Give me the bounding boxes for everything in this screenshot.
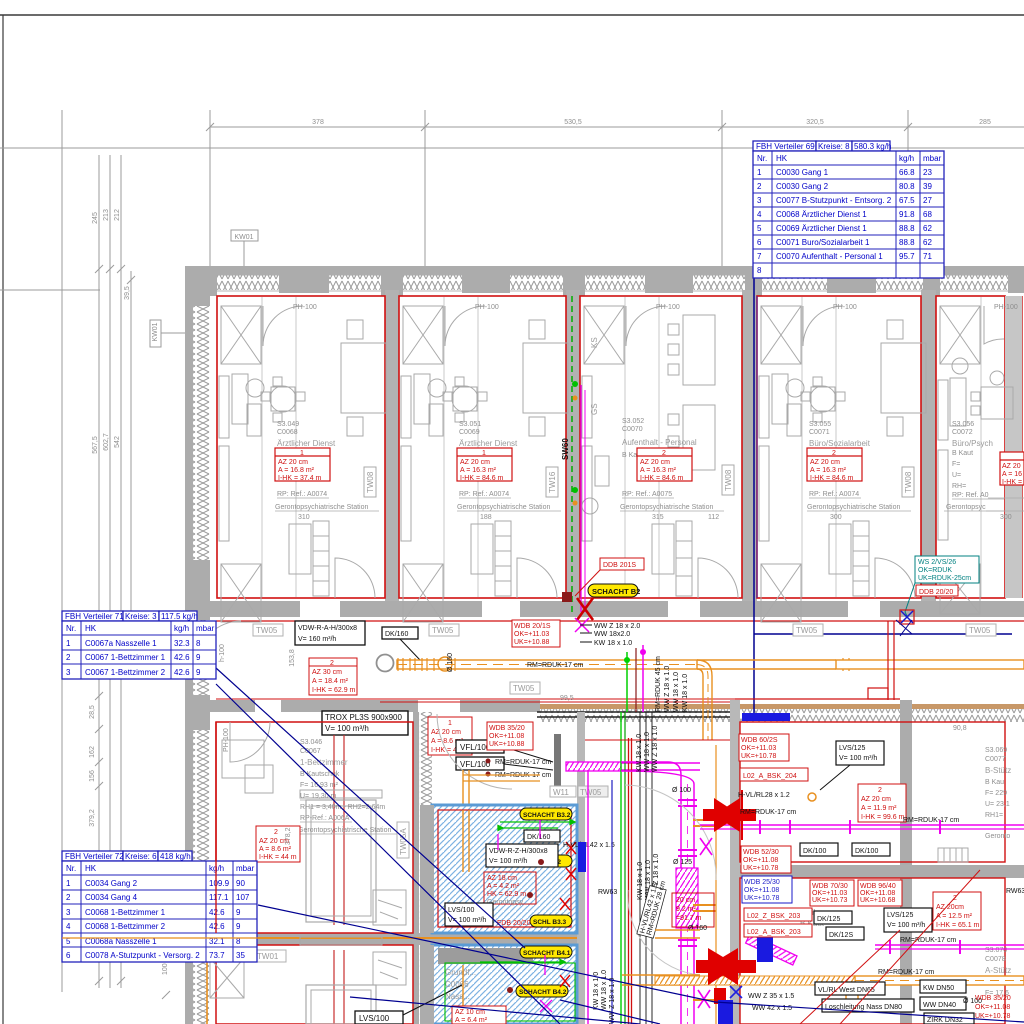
svg-text:RP: Ref.: A0074: RP: Ref.: A0074 xyxy=(809,491,859,498)
svg-text:285: 285 xyxy=(979,119,991,126)
SCHACHT B2 yellow oval xyxy=(588,584,640,597)
svg-text:A = 12.5 m²: A = 12.5 m² xyxy=(936,913,973,920)
svg-text:Büro/Psych: Büro/Psych xyxy=(952,439,993,448)
svg-text:C0034 Gang 4: C0034 Gang 4 xyxy=(85,893,138,902)
svg-text:L02_A_BSK_204: L02_A_BSK_204 xyxy=(743,773,797,780)
svg-text:DK/160: DK/160 xyxy=(527,834,550,841)
svg-text:C0067 1-Bettzimmer 2: C0067 1-Bettzimmer 2 xyxy=(85,668,166,677)
red corridor circuit lines xyxy=(735,621,900,700)
svg-text:153,8: 153,8 xyxy=(289,649,296,667)
svg-text:C0068 1-Bettzimmer 2: C0068 1-Bettzimmer 2 xyxy=(85,922,166,931)
bottom-left extras xyxy=(89,649,296,827)
svg-text:FDB 20/20: FDB 20/20 xyxy=(497,920,531,927)
svg-text:F=: F= xyxy=(952,461,960,468)
svg-text:Kreise: 3: Kreise: 3 xyxy=(125,612,157,621)
svg-text:FBH Verteiler 71: FBH Verteiler 71 xyxy=(65,612,124,621)
svg-text:567,5: 567,5 xyxy=(92,436,99,454)
svg-text:VL/RL West DN65: VL/RL West DN65 xyxy=(818,987,875,994)
svg-text:HK: HK xyxy=(776,154,788,163)
svg-text:99,5: 99,5 xyxy=(560,695,574,702)
svg-text:A = 16.3 m²: A = 16.3 m² xyxy=(460,467,497,474)
svg-text:WW DN40: WW DN40 xyxy=(923,1002,956,1009)
svg-text:Ø 160: Ø 160 xyxy=(447,653,454,672)
red circuit line xyxy=(585,739,730,741)
magenta joints on runs xyxy=(760,820,960,954)
svg-text:100: 100 xyxy=(162,963,169,975)
LVS label bottom xyxy=(355,1011,403,1024)
red box right room2 xyxy=(933,892,981,930)
svg-text:V= 100 m³/h: V= 100 m³/h xyxy=(839,755,877,762)
svg-text:I-HK = 84.6 m: I-HK = 84.6 m xyxy=(810,475,854,482)
svg-text:TW08: TW08 xyxy=(366,471,375,493)
svg-text:KW 18 x 1.0: KW 18 x 1.0 xyxy=(594,640,632,647)
red box 2 xyxy=(256,826,300,862)
orange duct elbow down xyxy=(697,660,712,740)
svg-text:379,2: 379,2 xyxy=(89,809,96,827)
svg-text:Büro/Sozialarbeit: Büro/Sozialarbeit xyxy=(809,439,871,448)
red damper cluster 1 xyxy=(703,798,756,832)
right rooms red borders xyxy=(740,722,1005,862)
svg-text:95.7: 95.7 xyxy=(899,252,915,261)
table FBH Verteiler 72 xyxy=(62,851,257,962)
WDB 35/20 red xyxy=(487,722,533,750)
right room1 texts xyxy=(985,747,1011,840)
rotated duct label box xyxy=(637,878,668,938)
window sill line xyxy=(185,290,1024,292)
svg-text:AZ 20: AZ 20 xyxy=(1002,463,1021,470)
label boxes right xyxy=(800,741,932,940)
svg-text:DK/100: DK/100 xyxy=(855,848,878,855)
heating loop red lines xyxy=(333,735,335,925)
svg-text:C0068 1-Bettzimmer 1: C0068 1-Bettzimmer 1 xyxy=(85,908,166,917)
orange down pipes to bath xyxy=(462,770,464,930)
svg-text:2: 2 xyxy=(662,450,666,457)
svg-text:542: 542 xyxy=(114,436,121,448)
VDW label xyxy=(486,844,558,867)
svg-text:C0077: C0077 xyxy=(985,756,1006,763)
svg-text:WW 18 x 1.0: WW 18 x 1.0 xyxy=(673,672,680,712)
svg-text:315: 315 xyxy=(652,514,664,521)
svg-text:Grundf...: Grundf... xyxy=(445,968,476,977)
red label boxes xyxy=(739,734,812,937)
magenta duct run xyxy=(566,762,621,771)
svg-text:mbar: mbar xyxy=(923,154,942,163)
svg-text:23: 23 xyxy=(923,168,932,177)
svg-text:WDB 70/30: WDB 70/30 xyxy=(812,883,848,890)
room 1 Aerztlicher Dienst xyxy=(217,296,386,622)
green dashed riser SW60 xyxy=(571,296,573,612)
svg-text:Gerontopsychiatrische Station: Gerontopsychiatrische Station xyxy=(457,504,550,511)
DDB 20/20 red label right xyxy=(916,585,958,596)
svg-text:LVS/125: LVS/125 xyxy=(839,745,865,752)
svg-text:UK=RDUK-25cm: UK=RDUK-25cm xyxy=(918,575,971,582)
svg-text:S3.052: S3.052 xyxy=(622,418,644,425)
svg-text:B-Stütz: B-Stütz xyxy=(985,766,1011,775)
svg-text:=91.7 m: =91.7 m xyxy=(676,915,702,922)
magenta vertical duct xyxy=(621,762,698,1024)
svg-text:TW08: TW08 xyxy=(724,469,733,491)
svg-text:2: 2 xyxy=(832,450,836,457)
svg-text:9: 9 xyxy=(236,908,241,917)
orange run bottom right xyxy=(855,976,1024,985)
svg-text:DK/160: DK/160 xyxy=(385,631,408,638)
svg-text:PH-100: PH-100 xyxy=(223,728,230,752)
svg-text:A = 18.4 m²: A = 18.4 m² xyxy=(312,678,349,685)
svg-text:OK=+11.08: OK=+11.08 xyxy=(975,1004,1010,1011)
orange duct continues right of elbow xyxy=(836,660,1024,669)
svg-text:A = 11.9 m²: A = 11.9 m² xyxy=(861,805,897,812)
air outlet circle xyxy=(377,655,394,672)
svg-text:C0030 Gang 1: C0030 Gang 1 xyxy=(776,168,829,177)
svg-text:C0072: C0072 xyxy=(952,429,973,436)
inter-room walls upper row xyxy=(385,290,936,602)
svg-text:42.6: 42.6 xyxy=(209,922,225,931)
svg-text:Ärztlicher Dienst: Ärztlicher Dienst xyxy=(459,439,518,448)
svg-text:Ø 125: Ø 125 xyxy=(673,859,692,866)
svg-text:1: 1 xyxy=(300,450,304,457)
svg-text:117.5 kg/h: 117.5 kg/h xyxy=(161,612,198,621)
W11 labels xyxy=(550,786,576,797)
svg-text:A = 16.3 m²: A = 16.3 m² xyxy=(640,467,677,474)
svg-text:TW08: TW08 xyxy=(904,471,913,493)
svg-text:UK=+10.78: UK=+10.78 xyxy=(743,865,779,872)
orange line through xyxy=(216,937,580,939)
svg-text:68: 68 xyxy=(923,210,932,219)
svg-text:B Kau: B Kau xyxy=(985,779,1004,786)
svg-text:62: 62 xyxy=(923,224,932,233)
KW01 label box xyxy=(231,230,258,266)
svg-text:C0069: C0069 xyxy=(459,429,480,436)
rotated labels in shaft xyxy=(593,726,660,1024)
red corridor line xyxy=(216,620,1024,622)
svg-text:39: 39 xyxy=(923,182,932,191)
svg-text:Nass...: Nass... xyxy=(445,992,470,1001)
svg-text:RM=RDUK-17 cm: RM=RDUK-17 cm xyxy=(900,937,956,944)
DK/160 label xyxy=(382,627,420,660)
red diagonal leaders bottom right xyxy=(840,870,980,1024)
short horizontal line left xyxy=(0,289,100,291)
bottom-right black labels xyxy=(815,980,974,1024)
door arc top-left xyxy=(230,722,270,762)
svg-text:I-HK = 65.1 m: I-HK = 65.1 m xyxy=(936,922,980,929)
svg-text:U= 23,1: U= 23,1 xyxy=(985,801,1010,808)
KW01 rotated label xyxy=(150,320,193,347)
svg-text:L02_Z_BSK_203: L02_Z_BSK_203 xyxy=(747,913,800,920)
svg-text:h-100: h-100 xyxy=(219,644,226,662)
svg-text:OK=+11.08: OK=+11.08 xyxy=(860,890,895,897)
svg-text:WW 18 x 1.0: WW 18 x 1.0 xyxy=(601,970,608,1010)
svg-text:I-HK = 84.6 m: I-HK = 84.6 m xyxy=(460,475,504,482)
svg-text:418 kg/h: 418 kg/h xyxy=(160,852,191,861)
svg-text:SCHACHT B3.2: SCHACHT B3.2 xyxy=(523,812,571,819)
svg-text:C0078: C0078 xyxy=(985,956,1006,963)
svg-text:U=: U= xyxy=(952,472,961,479)
svg-text:Gerontopsychiatrische Station: Gerontopsychiatrische Station xyxy=(620,504,713,511)
teal WS box xyxy=(905,556,979,618)
red double line lower corridor xyxy=(380,701,735,703)
right room2 texts xyxy=(985,947,1011,997)
svg-text:HK: HK xyxy=(85,624,97,633)
svg-text:S3.049: S3.049 xyxy=(277,421,299,428)
wall band between bathrooms xyxy=(255,933,580,945)
svg-text:3: 3 xyxy=(66,908,71,917)
door arc above bath1 xyxy=(437,714,512,789)
top dimension chain xyxy=(206,123,1024,131)
svg-text:Nr.: Nr. xyxy=(757,154,767,163)
distributor marker right xyxy=(900,610,914,624)
svg-text:66.8: 66.8 xyxy=(899,168,915,177)
svg-text:RM=RDUK-17 cm: RM=RDUK-17 cm xyxy=(740,809,796,816)
svg-text:5: 5 xyxy=(757,224,762,233)
svg-text:Ärztlicher Dienst: Ärztlicher Dienst xyxy=(277,439,336,448)
svg-text:KW 18 x 1.0: KW 18 x 1.0 xyxy=(636,734,643,772)
svg-text:7: 7 xyxy=(757,252,762,261)
svg-text:1: 1 xyxy=(66,879,71,888)
svg-text:91.8: 91.8 xyxy=(899,210,915,219)
red inner box xyxy=(484,872,536,904)
orange riser joints xyxy=(693,820,716,1000)
svg-text:Kreise: 8: Kreise: 8 xyxy=(818,142,850,151)
svg-text:mbar: mbar xyxy=(196,624,215,633)
left exterior wall xyxy=(185,266,193,1024)
svg-text:UK=+10.78: UK=+10.78 xyxy=(744,895,780,902)
svg-text:KW DN50: KW DN50 xyxy=(923,985,954,992)
svg-text:188: 188 xyxy=(480,514,492,521)
svg-text:VFL/100: VFL/100 xyxy=(460,743,491,752)
svg-text:L02_A_BSK_203: L02_A_BSK_203 xyxy=(747,929,801,936)
horizontal grid line under title xyxy=(0,147,1024,149)
top wall piers solid xyxy=(185,266,1024,296)
svg-text:107: 107 xyxy=(236,893,250,902)
svg-text:TW05: TW05 xyxy=(580,788,602,797)
svg-text:35: 35 xyxy=(236,951,245,960)
svg-text:RW63: RW63 xyxy=(1006,888,1024,895)
DK/160 xyxy=(524,830,560,842)
svg-text:WDB 25/30: WDB 25/30 xyxy=(744,879,780,886)
svg-text:C0071 Buro/Sozialarbeit 1: C0071 Buro/Sozialarbeit 1 xyxy=(776,238,870,247)
svg-text:RW63: RW63 xyxy=(598,889,617,896)
svg-text:AZ 20 cm: AZ 20 cm xyxy=(810,459,840,466)
svg-text:TW05: TW05 xyxy=(513,684,535,693)
svg-text:AZ 20 cm: AZ 20 cm xyxy=(460,459,490,466)
svg-text:RP-Ref.: A006A: RP-Ref.: A006A xyxy=(300,815,350,822)
left wall solid piers xyxy=(185,266,210,955)
green riser in corridor xyxy=(626,652,628,712)
svg-text:Aufenthalt - Personal: Aufenthalt - Personal xyxy=(622,438,697,447)
big door arc in stuetzpunkt xyxy=(625,785,716,880)
table FBH Verteiler 71 xyxy=(62,611,216,679)
svg-text:156: 156 xyxy=(89,770,96,782)
svg-text:HK: HK xyxy=(85,864,97,873)
red bottom right texts xyxy=(975,995,1011,1020)
svg-text:RM=RDUK-17 cm: RM=RDUK-17 cm xyxy=(495,759,551,766)
svg-text:2: 2 xyxy=(878,787,882,794)
blue rects xyxy=(742,713,790,721)
svg-text:C0077 B-Stutzpunkt - Entsorg.: C0077 B-Stutzpunkt - Entsorg. 2 xyxy=(776,196,892,205)
magenta main run 2 xyxy=(875,944,1024,946)
svg-text:90: 90 xyxy=(236,879,245,888)
svg-text:RP: Ref.: A0074: RP: Ref.: A0074 xyxy=(277,491,327,498)
TW05A rotated xyxy=(397,822,409,858)
svg-text:WDB 20/1S: WDB 20/1S xyxy=(514,623,551,630)
svg-text:TW05: TW05 xyxy=(969,626,991,635)
svg-text:27: 27 xyxy=(923,196,932,205)
svg-text:C0030 Gang 2: C0030 Gang 2 xyxy=(776,182,829,191)
svg-text:I-HK = 99.6 m: I-HK = 99.6 m xyxy=(861,814,905,821)
svg-text:C0071: C0071 xyxy=(809,429,830,436)
svg-text:67.5: 67.5 xyxy=(899,196,915,205)
svg-text:UK=+10.78: UK=+10.78 xyxy=(741,753,777,760)
svg-text:C0068 Ärztlicher Dienst 1: C0068 Ärztlicher Dienst 1 xyxy=(776,210,867,219)
svg-text:378: 378 xyxy=(312,119,324,126)
magenta duct diagonal xyxy=(746,934,797,965)
svg-text:TW01: TW01 xyxy=(257,952,279,961)
svg-text:DK/125: DK/125 xyxy=(817,916,840,923)
svg-text:AZ 30 cm: AZ 30 cm xyxy=(312,669,342,676)
svg-text:PH-100: PH-100 xyxy=(293,304,317,311)
sheet border top line xyxy=(0,14,1024,16)
svg-text:OK=+11.08: OK=+11.08 xyxy=(489,733,524,740)
svg-text:A = 16: A = 16 xyxy=(1002,471,1022,478)
svg-text:378,2: 378,2 xyxy=(285,827,292,845)
LVS label xyxy=(445,903,493,926)
desk bottom right xyxy=(373,890,406,925)
VFL labels xyxy=(456,740,553,770)
svg-text:OK=+11.08: OK=+11.08 xyxy=(743,857,778,864)
svg-text:580.3 kg/h: 580.3 kg/h xyxy=(854,142,891,151)
svg-text:I-HK =: I-HK = xyxy=(1002,479,1022,486)
svg-text:3: 3 xyxy=(757,196,762,205)
red box right room1 xyxy=(858,784,906,822)
svg-text:AZ 20cm: AZ 20cm xyxy=(936,904,964,911)
svg-text:WDB 52/30: WDB 52/30 xyxy=(743,849,779,856)
svg-text:RH1=: RH1= xyxy=(985,812,1003,819)
svg-text:AZ 20 cm: AZ 20 cm xyxy=(431,729,461,736)
svg-text:213: 213 xyxy=(103,209,110,221)
svg-text:Nr.: Nr. xyxy=(66,624,76,633)
svg-text:245: 245 xyxy=(92,212,99,224)
left dim ticks xyxy=(95,265,135,985)
svg-text:TW16: TW16 xyxy=(548,471,557,493)
room 5 Buero/Psych (cut off) xyxy=(936,296,1024,614)
svg-text:212: 212 xyxy=(114,209,121,221)
svg-text:KS: KS xyxy=(590,337,599,348)
svg-text:9: 9 xyxy=(196,668,201,677)
svg-text:AZ 20 cm: AZ 20 cm xyxy=(640,459,670,466)
svg-text:8: 8 xyxy=(757,266,762,275)
svg-text:WW Z 18 x 1.0: WW Z 18 x 1.0 xyxy=(652,726,659,772)
svg-text:73.7: 73.7 xyxy=(209,951,225,960)
room 3 Aufenthalt-Personal xyxy=(580,296,742,598)
svg-text:9.2 m²: 9.2 m² xyxy=(676,906,697,913)
svg-text:S3.056: S3.056 xyxy=(952,421,974,428)
svg-text:OK=+11.03: OK=+11.03 xyxy=(812,890,847,897)
left dimension labels rotated xyxy=(92,209,131,454)
svg-text:42.6: 42.6 xyxy=(209,908,225,917)
svg-text:V= 100 m³/h: V= 100 m³/h xyxy=(489,858,527,865)
svg-text:WW Z 18 x 2.0: WW Z 18 x 2.0 xyxy=(594,623,640,630)
svg-text:C0067a Nasszelle 1: C0067a Nasszelle 1 xyxy=(85,639,157,648)
svg-text:A = 4.2 m²: A = 4.2 m² xyxy=(487,883,520,890)
corridor bottom wall left part xyxy=(185,700,540,712)
svg-text:S3.046: S3.046 xyxy=(300,739,322,746)
TROX label xyxy=(322,711,408,735)
svg-text:2: 2 xyxy=(274,829,278,836)
svg-text:WDB 96/40: WDB 96/40 xyxy=(860,883,896,890)
svg-text:90,8: 90,8 xyxy=(953,725,967,732)
svg-text:20 cm: 20 cm xyxy=(676,897,695,904)
svg-text:I-HK = 62.9 m: I-HK = 62.9 m xyxy=(312,687,356,694)
WDB 20/1S red box xyxy=(512,620,560,647)
red box 1 above bath xyxy=(428,717,472,755)
svg-text:TW05: TW05 xyxy=(256,626,278,635)
svg-text:WDB 35/20: WDB 35/20 xyxy=(489,725,525,732)
svg-text:1: 1 xyxy=(448,720,452,727)
svg-text:kg/h: kg/h xyxy=(899,154,914,163)
svg-text:300: 300 xyxy=(830,514,842,521)
schacht ovals xyxy=(520,808,572,820)
VDW air label xyxy=(295,621,365,645)
WW/KW pipe texts xyxy=(580,623,640,647)
svg-text:DK/100: DK/100 xyxy=(803,848,826,855)
svg-text:32.3: 32.3 xyxy=(174,639,190,648)
svg-text:62: 62 xyxy=(923,238,932,247)
svg-text:1: 1 xyxy=(66,639,71,648)
TW05 labels xyxy=(253,624,996,694)
svg-text:530,5: 530,5 xyxy=(564,119,582,126)
svg-text:TW05: TW05 xyxy=(432,626,454,635)
corridor bottom wall right: tan pipe + insulation xyxy=(540,704,1024,709)
svg-text:Geronto: Geronto xyxy=(985,833,1010,840)
svg-text:39,5: 39,5 xyxy=(124,286,131,300)
svg-text:F= 229: F= 229 xyxy=(985,790,1007,797)
svg-text:Gerontopsychiatrische Station: Gerontopsychiatrische Station xyxy=(807,504,900,511)
svg-text:DDB 201S: DDB 201S xyxy=(603,562,636,569)
svg-text:AZ 10 cm: AZ 10 cm xyxy=(455,1009,485,1016)
svg-text:B Kaut: B Kaut xyxy=(952,450,973,457)
svg-text:UK=+10.68: UK=+10.68 xyxy=(860,897,896,904)
svg-text:GS: GS xyxy=(590,403,599,415)
svg-text:TROX PL3S 900x900: TROX PL3S 900x900 xyxy=(325,713,402,722)
svg-text:S3.055: S3.055 xyxy=(809,421,831,428)
svg-text:AZ 20 cm: AZ 20 cm xyxy=(861,796,891,803)
svg-text:PH-100: PH-100 xyxy=(656,304,680,311)
svg-text:A = 16.3 m²: A = 16.3 m² xyxy=(810,467,847,474)
svg-text:AZ 20 cm: AZ 20 cm xyxy=(278,459,308,466)
svg-text:117.1: 117.1 xyxy=(209,893,229,902)
svg-text:C0070: C0070 xyxy=(622,426,643,433)
svg-text:C0070 Aufenthalt - Personal 1: C0070 Aufenthalt - Personal 1 xyxy=(776,252,883,261)
svg-text:W11: W11 xyxy=(553,788,569,797)
svg-text:DK/12S: DK/12S xyxy=(829,932,853,939)
svg-text:RP: Ref.: A0074: RP: Ref.: A0074 xyxy=(459,491,509,498)
svg-text:109.9: 109.9 xyxy=(209,879,230,888)
svg-text:S3.070: S3.070 xyxy=(985,947,1007,954)
svg-text:PH-100: PH-100 xyxy=(475,304,499,311)
svg-text:A = 8.6 m²: A = 8.6 m² xyxy=(259,846,292,853)
svg-text:WW 18 x 1.0: WW 18 x 1.0 xyxy=(644,732,651,772)
navy leader vertical from table 69 xyxy=(753,278,755,634)
svg-text:Ø 100: Ø 100 xyxy=(672,787,691,794)
svg-text:Kreise: 6: Kreise: 6 xyxy=(125,852,157,861)
svg-text:2: 2 xyxy=(330,660,334,667)
svg-text:WW Z 18 x 1.0: WW Z 18 x 1.0 xyxy=(609,978,616,1024)
svg-text:OK=+11.03: OK=+11.03 xyxy=(514,631,549,638)
svg-text:FBH Verteiler 72: FBH Verteiler 72 xyxy=(65,852,124,861)
svg-text:71: 71 xyxy=(923,252,932,261)
svg-text:I-HK = 84.6 m: I-HK = 84.6 m xyxy=(640,475,684,482)
svg-text:28,5: 28,5 xyxy=(89,705,96,719)
